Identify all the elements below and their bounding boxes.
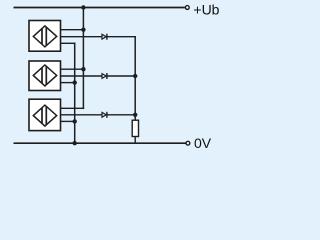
sensor 1 output wire [61, 36, 136, 38]
sensor 2 plus wire [61, 68, 84, 70]
sensor B3 symbol [33, 105, 56, 126]
sensor 3 minus wire [61, 120, 75, 122]
wire resistor to 0V rail [134, 137, 136, 144]
junction sensor1 plus / bus [81, 28, 85, 32]
sensor B1 body [29, 21, 61, 52]
diode D1 [102, 34, 107, 40]
diode D3 [102, 112, 107, 118]
svg-text:0V: 0V [194, 135, 212, 151]
sensor B1 symbol [33, 26, 56, 47]
sensor 2 output wire [61, 75, 136, 77]
sensor 1 minus wire [61, 42, 76, 44]
sensor 1 plus wire [61, 29, 84, 31]
junction sensor2 plus / bus [81, 67, 85, 71]
junction top rail / +Ub bus [81, 5, 85, 9]
terminal 0V [186, 141, 190, 145]
sensor B2 body [29, 61, 61, 91]
top rail +Ub [14, 7, 185, 9]
terminal +Ub [185, 6, 189, 10]
diode D2 [102, 73, 107, 79]
svg-text:+Ub: +Ub [193, 2, 219, 18]
junction sensor2 minus / 0V bus [73, 80, 77, 84]
+Ub bus (vertical) [82, 8, 84, 110]
junction sensor3 output / output bus [133, 113, 137, 117]
junction sensor3 minus / 0V bus [73, 119, 77, 123]
sensor 2 minus wire [61, 82, 75, 84]
resistor R (load) [132, 120, 138, 136]
output bus (vertical) [134, 37, 136, 121]
bottom rail 0V [14, 142, 186, 144]
junction sensor2 output / output bus [133, 74, 137, 78]
sensor 3 output wire [61, 114, 136, 116]
sensor B3 body [29, 99, 61, 130]
sensor 3 plus wire [61, 107, 85, 109]
sensor B2 symbol [33, 65, 56, 86]
junction 0V bus / bottom rail [73, 141, 77, 145]
0V bus (vertical) [74, 43, 76, 144]
